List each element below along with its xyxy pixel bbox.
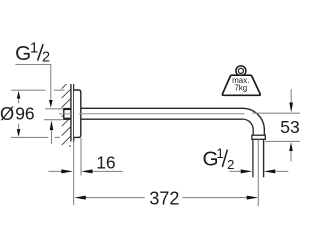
right extension line below flange bbox=[80, 138, 82, 176]
outlet tube right wall bbox=[263, 139, 265, 177]
Ø96 up arrow bbox=[17, 91, 21, 104]
nut thread lower arrow bbox=[50, 120, 54, 144]
centerline through nut bbox=[59, 113, 71, 115]
bend inner arc bbox=[243, 119, 254, 135]
svg-text:372: 372 bbox=[149, 188, 179, 208]
dimension 16 bbox=[49, 169, 123, 173]
svg-text:Ø: Ø bbox=[0, 104, 14, 124]
dimension Ø96 extension top bbox=[11, 89, 64, 91]
dimension Ø96 extension bottom bbox=[11, 136, 60, 138]
svg-text:1: 1 bbox=[216, 146, 224, 161]
svg-text:96: 96 bbox=[15, 104, 34, 124]
dimension 53 bottom extension bbox=[265, 140, 300, 142]
dimension 53 top extension bbox=[253, 112, 301, 114]
pipe top line bbox=[81, 107, 243, 109]
dimension 372 line bbox=[74, 196, 258, 200]
svg-text:1: 1 bbox=[30, 39, 38, 56]
outlet G1/2 dimension arrows bbox=[230, 169, 289, 173]
weight icon body bbox=[222, 75, 260, 95]
nut thread extension lines bbox=[44, 109, 64, 120]
flange (wall escutcheon) bbox=[74, 90, 81, 137]
svg-text:16: 16 bbox=[96, 153, 115, 173]
pipe bottom line bbox=[81, 118, 243, 120]
53 up arrow bbox=[289, 142, 293, 161]
nut (wall connection thread) bbox=[64, 108, 71, 120]
svg-text:53: 53 bbox=[280, 117, 299, 137]
wall line bbox=[71, 84, 74, 142]
outlet tube left wall bbox=[252, 139, 254, 177]
svg-text:2: 2 bbox=[42, 50, 50, 66]
svg-text:7kg: 7kg bbox=[234, 84, 247, 93]
svg-text:2: 2 bbox=[227, 157, 234, 172]
leader line G1/2 top bbox=[15, 65, 52, 108]
bend outer arc bbox=[243, 108, 265, 135]
wall hatching bbox=[62, 80, 71, 155]
left extension line below flange bbox=[73, 142, 75, 206]
53 down arrow bbox=[289, 89, 293, 113]
text Ø96 bbox=[0, 104, 35, 124]
svg-text:G: G bbox=[15, 42, 31, 65]
weight icon ring bbox=[236, 66, 246, 76]
pipe centerline bbox=[79, 113, 245, 115]
label G 1/2 top bbox=[15, 39, 50, 65]
372 right extension line bbox=[257, 140, 259, 207]
label G 1/2 bottom bbox=[203, 146, 235, 172]
band (outlet collar) bbox=[252, 135, 265, 139]
Ø96 down arrow bbox=[17, 124, 21, 137]
